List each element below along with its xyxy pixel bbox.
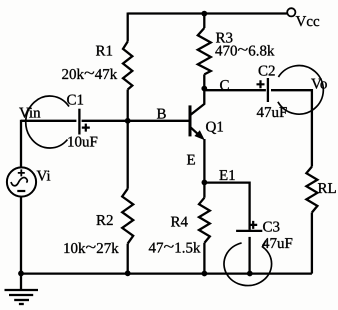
wire E1 branch to C3 [204,183,249,230]
node E label [187,155,195,165]
node C junction [201,86,207,92]
wire base line right part [82,120,189,122]
node E1 junction [202,180,208,186]
wire input corner and base line left part [21,120,76,122]
annotation circle around C3 [224,241,272,286]
node B junction [125,118,131,124]
wire C3 bottom lead [248,237,250,274]
capacitor C1 [67,95,97,147]
wire top rail [128,12,288,14]
node Vin label [19,108,40,118]
power terminal Vcc [287,8,319,26]
ground [5,274,39,305]
annotation circle around Vin and C1 [26,96,69,148]
node E1 label [219,170,234,180]
annotation circle around Vo [278,66,323,115]
wire R4 bottom lead [203,243,205,274]
wire Vi to bottom rail [20,197,22,274]
capacitor C2 [257,66,287,118]
wire C2 to output corner [271,90,312,166]
wire left column to Vi source [20,120,22,167]
resistor RL [306,167,335,213]
resistor R4 [149,198,210,253]
wire R4 top lead [203,182,205,197]
transistor Q1 [190,88,223,140]
junction top of R3 [201,11,207,17]
junction bottom left [18,271,24,277]
resistor R3 [198,28,275,74]
node C label [220,80,229,90]
wire emitter to node E1 [203,139,205,182]
junction C3 bottom [247,271,253,277]
wire R1 top lead [127,13,129,42]
wire R3 bottom lead to node C [203,74,205,88]
node Vo label [311,79,327,89]
wire bottom rail [21,272,312,274]
source Vi [7,167,50,196]
wire R3 top lead [203,14,205,29]
wire R1 bottom lead to node B [127,90,129,121]
junction R2 bottom [125,270,131,276]
wire RL bottom lead to bottom rail [311,213,313,274]
node B label [157,109,166,119]
resistor R2 [64,189,133,253]
wire R2 bottom lead [127,244,129,274]
wire collector line C to C2 [204,89,266,91]
capacitor C3 [236,221,292,248]
wire R2 top lead from node B [127,121,129,189]
junction R4 bottom [202,271,208,277]
resistor R1 [62,42,132,90]
